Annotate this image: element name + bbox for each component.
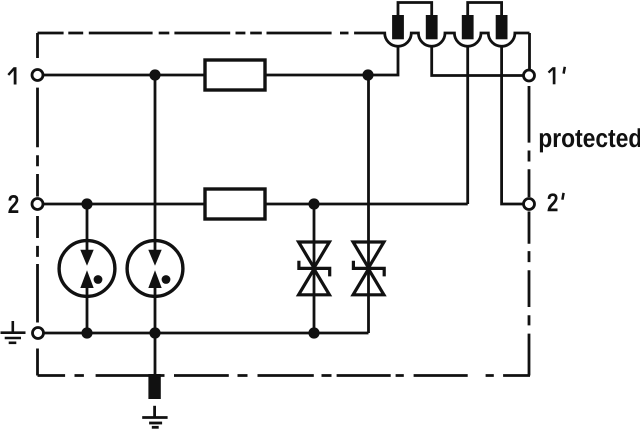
junction node ground/GDT1 bbox=[81, 327, 92, 338]
wire pin2 to terminal 1' bbox=[432, 46, 524, 75]
terminal 1 bbox=[32, 70, 43, 81]
junction node ground/suppressor1 bbox=[308, 327, 319, 338]
socket line with 4 arcs (top, solid) bbox=[381, 33, 530, 46]
wire row 2 after resistor bbox=[265, 203, 468, 206]
gas discharge tube 2 bbox=[127, 241, 183, 297]
wire earth lead down bbox=[154, 333, 157, 375]
wire pin3 down to row 2 bbox=[466, 46, 469, 204]
resistor R1 bbox=[205, 60, 265, 90]
bridge wire pin1-pin2 bbox=[398, 3, 432, 16]
terminal ground bbox=[33, 328, 44, 339]
junction node row2/GDT1 bbox=[81, 198, 92, 209]
plug pin 3 (black) bbox=[462, 15, 474, 39]
terminal 2' bbox=[524, 199, 535, 210]
wire pin1 to node row1 bbox=[368, 46, 398, 75]
junction node row1/GDT2 bbox=[149, 69, 160, 80]
wire below earth plug bbox=[153, 406, 156, 418]
plug pin 1 (black) bbox=[392, 15, 404, 39]
bridge wire pin3-pin4 bbox=[468, 3, 502, 16]
suppressor diode 1 bbox=[299, 242, 330, 295]
label terminal 2' bbox=[549, 193, 564, 210]
junction node row1/suppressor2/pin1 bbox=[362, 69, 373, 80]
enclosure border right (dash-dot between terminals) bbox=[528, 33, 531, 376]
gas discharge tube 1 bbox=[59, 241, 115, 297]
junction node row2/suppressor1 bbox=[308, 198, 319, 209]
junction node ground/GDT2/earth lead bbox=[149, 327, 160, 338]
earth symbol at ground terminal bbox=[1, 321, 26, 343]
wire pin4 to terminal 2' bbox=[502, 46, 524, 204]
wire gas tube 2 vertical bbox=[154, 75, 157, 333]
resistor R2 bbox=[205, 189, 265, 219]
wire row 1 bbox=[43, 74, 205, 77]
wire ground row bbox=[43, 332, 368, 335]
wire gas tube 1 vertical bbox=[86, 204, 89, 333]
label terminal 2 bbox=[10, 196, 18, 211]
enclosure border left (dash-dot) bbox=[36, 33, 39, 376]
wire row 1 after resistor bbox=[265, 74, 368, 77]
label terminal 1' bbox=[549, 67, 565, 85]
plug pin 2 (black) bbox=[426, 15, 438, 39]
terminal 1' bbox=[524, 70, 535, 81]
wire row 2 bbox=[43, 203, 205, 206]
terminal 2 bbox=[32, 199, 43, 210]
enclosure border bottom (dash-dot) bbox=[38, 374, 531, 377]
wire suppressor 1 vertical bbox=[313, 204, 316, 333]
label protected side bbox=[540, 128, 640, 152]
earth plug terminal (black) bbox=[148, 374, 160, 399]
wire suppressor 2 vertical bbox=[367, 75, 370, 333]
suppressor diode 2 bbox=[353, 242, 384, 295]
earth symbol bottom bbox=[142, 418, 167, 428]
plug pin 4 (black) bbox=[496, 15, 508, 39]
label terminal 1 bbox=[8, 67, 15, 84]
enclosure border top (dash-dot) bbox=[38, 32, 382, 35]
